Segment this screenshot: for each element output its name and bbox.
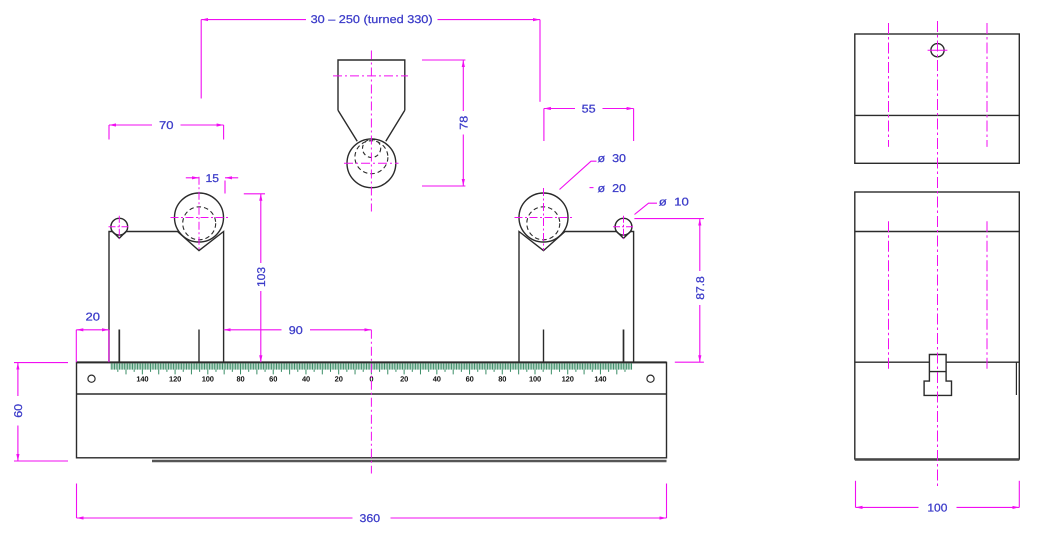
dimension 20 (76, 311, 109, 362)
side view right edge notch (1015, 362, 1017, 395)
dimension 87.8 (634, 219, 706, 363)
svg-text:120: 120 (562, 374, 574, 383)
svg-text:ø 10: ø 10 (659, 197, 689, 209)
dimension 90 (224, 325, 372, 337)
svg-text:20: 20 (335, 374, 343, 383)
dimension 103 (244, 194, 268, 362)
left support block outline with V-notches (109, 232, 224, 363)
svg-text:30 – 250 (turned 330): 30 – 250 (turned 330) (311, 14, 433, 26)
left roller vertical centerline (198, 177, 200, 251)
side view punch divider line (855, 114, 1020, 116)
svg-text:15: 15 (206, 173, 220, 185)
base beam outer rectangle (77, 362, 667, 457)
base shadow line (152, 460, 667, 463)
base hole right (647, 375, 654, 382)
svg-text:80: 80 (498, 374, 506, 383)
svg-text:140: 140 (136, 374, 148, 383)
punch vertical centerline (370, 51, 372, 212)
side view base bottom thick edge (855, 458, 1020, 460)
svg-text:78: 78 (458, 116, 470, 130)
base hole left (88, 375, 95, 382)
svg-text:100: 100 (927, 502, 947, 514)
ruler numbers (136, 374, 606, 383)
dimension 60 (13, 363, 68, 461)
punch body outline (338, 60, 405, 141)
svg-text:ø 20: ø 20 (598, 183, 627, 195)
right small roller cross (613, 216, 634, 239)
dimension 70 (109, 120, 224, 140)
ruler tick marks (111, 363, 631, 374)
svg-text:100: 100 (529, 374, 541, 383)
punch ball circle (347, 139, 396, 188)
side view right axis line upper (986, 23, 988, 147)
left small roller cross (109, 216, 130, 239)
right support block outline with V-notches (519, 232, 634, 363)
side view punch hole center mark (928, 49, 948, 51)
right roller hidden circle ø20 (527, 207, 560, 240)
right roller ø30 (519, 193, 568, 242)
svg-text:80: 80 (236, 374, 244, 383)
svg-text:120: 120 (169, 374, 181, 383)
punch ball hidden circle ø10 (363, 139, 381, 157)
right roller vertical centerline (543, 188, 545, 250)
punch ball horizontal centerline (344, 162, 399, 164)
svg-text:90: 90 (289, 325, 303, 337)
side view left axis line lower (888, 221, 890, 370)
svg-text:60: 60 (13, 404, 25, 418)
svg-text:360: 360 (360, 513, 381, 525)
right roller ø10 (615, 218, 632, 235)
base beam top edge thick (77, 361, 667, 363)
side view left axis line upper (888, 23, 890, 147)
side view base top line (855, 361, 1020, 363)
svg-text:40: 40 (302, 374, 310, 383)
svg-text:103: 103 (256, 267, 268, 287)
side view block top line (855, 231, 1020, 233)
svg-text:20: 20 (86, 311, 101, 323)
svg-text:87.8: 87.8 (695, 276, 707, 300)
punch horizontal centerline (333, 75, 408, 77)
svg-text:100: 100 (202, 374, 214, 383)
dimension 15 (186, 173, 238, 194)
punch ball hidden circle ø20 (355, 141, 388, 174)
svg-text:70: 70 (159, 120, 174, 132)
dimension 360 (77, 484, 667, 526)
dimension 78 (422, 60, 470, 186)
left roller ø10 (111, 218, 128, 235)
left roller hidden circle ø20 (183, 207, 216, 240)
svg-text:20: 20 (400, 374, 408, 383)
svg-text:55: 55 (582, 104, 596, 116)
side view base rectangle (855, 192, 1020, 459)
dimension 55 (544, 104, 634, 141)
right block pointer legs (543, 330, 545, 362)
label ø10 with leader (635, 197, 689, 215)
dimension 30-250 top (201, 14, 540, 102)
svg-text:60: 60 (269, 374, 277, 383)
svg-text:140: 140 (594, 374, 606, 383)
right roller horizontal centerline (515, 217, 573, 219)
side view punch rectangle (855, 34, 1020, 163)
base vertical centerline (370, 330, 372, 474)
label ø30 with leader (560, 153, 627, 189)
svg-text:40: 40 (433, 374, 441, 383)
svg-text:ø 30: ø 30 (598, 153, 627, 165)
side view punch hole (931, 44, 944, 57)
side view center line (937, 21, 939, 487)
left roller horizontal centerline (171, 217, 229, 219)
label ø20 (590, 183, 627, 195)
svg-text:60: 60 (466, 374, 474, 383)
side view T-slot block (924, 355, 951, 396)
side view right axis line lower (986, 221, 988, 370)
base beam plate bottom line (77, 393, 667, 395)
dimension 100 (856, 481, 1020, 515)
left block pointer legs (118, 330, 120, 362)
left roller ø30 (175, 193, 224, 242)
